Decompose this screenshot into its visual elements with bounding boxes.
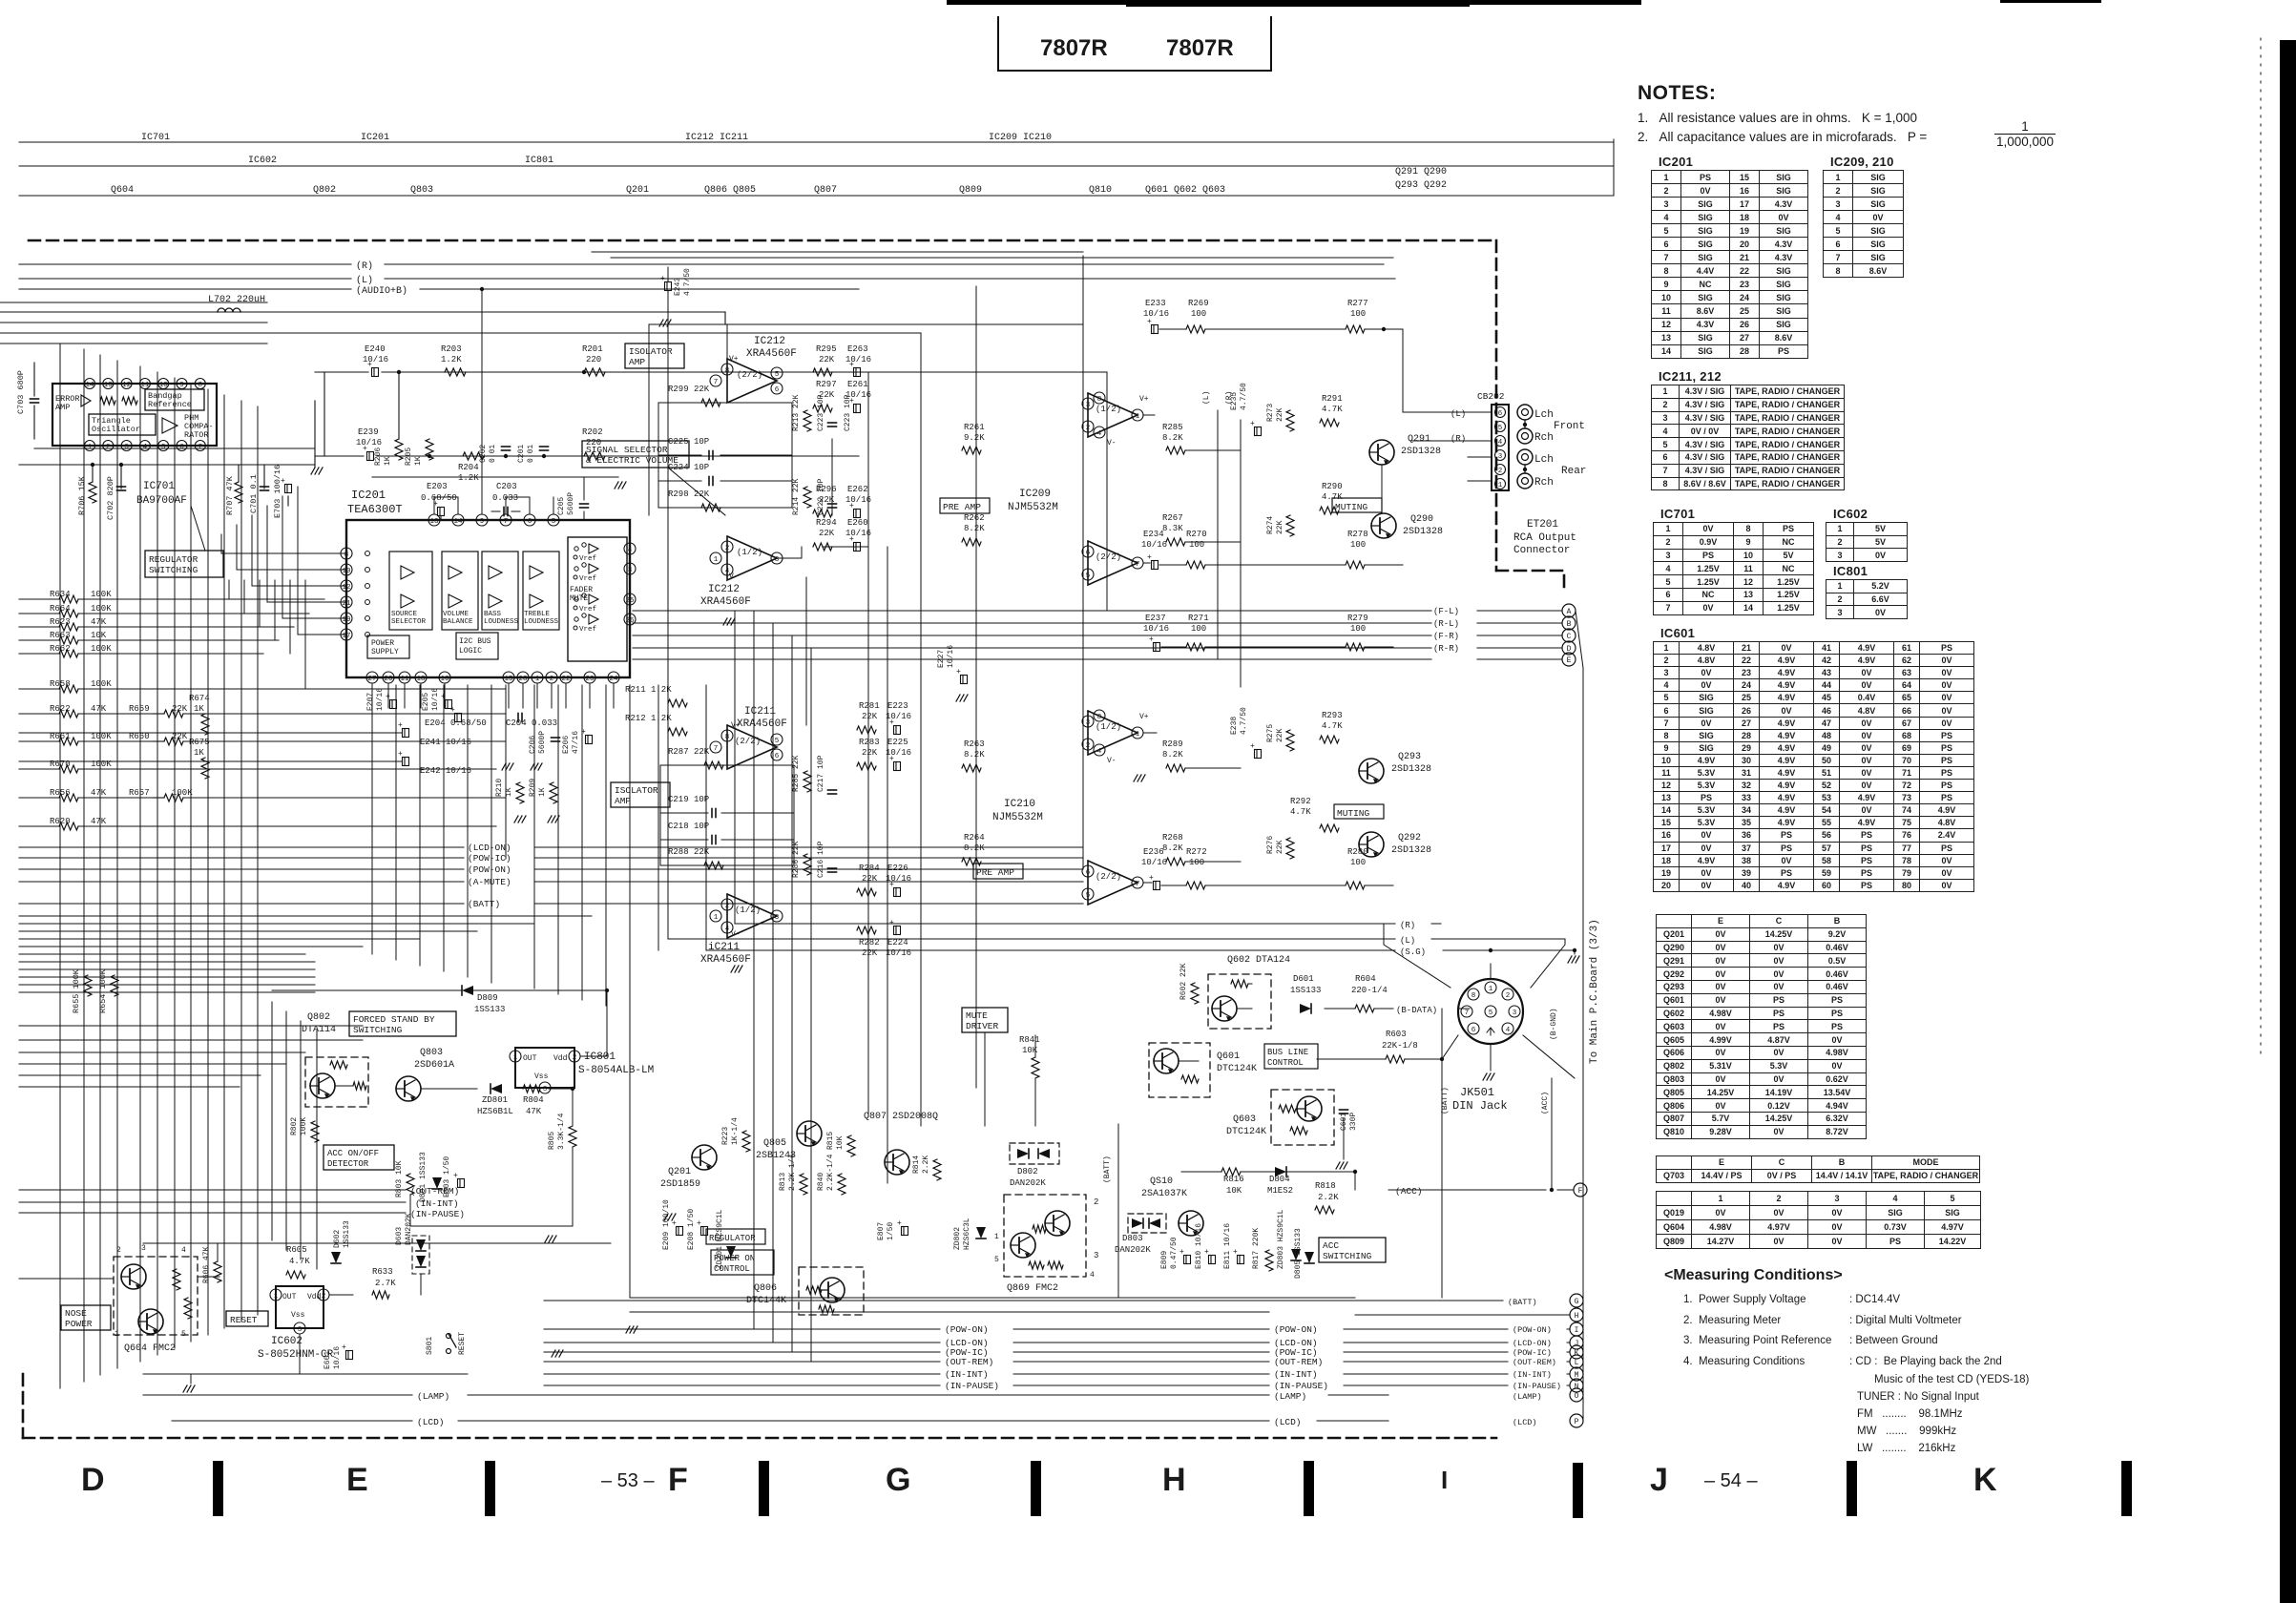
svg-text:R840: R840 <box>817 1173 825 1191</box>
node POWER ON CONTROL box <box>711 1250 774 1275</box>
svg-text:220-1/4: 220-1/4 <box>1351 986 1388 995</box>
svg-text:R278: R278 <box>1347 530 1368 539</box>
svg-text:DETECTOR: DETECTOR <box>327 1159 369 1169</box>
svg-text:3: 3 <box>1513 1010 1517 1017</box>
svg-text:Rear: Rear <box>1561 466 1586 477</box>
svg-text:8: 8 <box>1472 992 1476 1000</box>
svg-text:ISOLATOR: ISOLATOR <box>615 785 658 796</box>
svg-text:S-8052HNM-CR: S-8052HNM-CR <box>258 1349 334 1361</box>
svg-text:8.2K: 8.2K <box>964 843 985 853</box>
wire JK501 spokes <box>1384 924 1451 988</box>
svg-text:R603: R603 <box>1386 1030 1407 1039</box>
svg-text:11: 11 <box>400 676 409 683</box>
svg-text:Q292: Q292 <box>1398 833 1421 843</box>
pin 18 IC201 <box>415 672 427 683</box>
ground <box>183 1385 187 1392</box>
svg-text:IC602: IC602 <box>271 1336 303 1347</box>
svg-text:RCA Output: RCA Output <box>1513 532 1576 544</box>
node SIGNAL SELECTOR & ELECTRIC VOLUME <box>582 441 689 468</box>
svg-text:9.2K: 9.2K <box>964 433 985 443</box>
svg-text:4.7K: 4.7K <box>1290 807 1311 817</box>
svg-text:SIGNAL SELECTOR: SIGNAL SELECTOR <box>586 445 668 455</box>
svg-text:Vref: Vref <box>579 555 597 563</box>
svg-text:8.2K: 8.2K <box>1162 843 1183 853</box>
diode D803 DAN202K <box>1128 1214 1166 1233</box>
svg-text:1: 1 <box>994 1233 999 1241</box>
svg-text:21: 21 <box>342 600 351 608</box>
wire bottom rails <box>630 1297 1355 1299</box>
wire lamp lcd <box>224 1406 1393 1408</box>
wire <box>549 1088 573 1090</box>
pin 15 IC201 <box>503 672 514 683</box>
svg-text:2: 2 <box>1086 742 1091 750</box>
node bus terminal A <box>1562 604 1576 617</box>
svg-text:H: H <box>1162 1462 1186 1498</box>
svg-text:1K: 1K <box>194 748 204 758</box>
svg-text:+: + <box>849 502 854 510</box>
svg-text:(POW-ON): (POW-ON) <box>945 1324 989 1335</box>
svg-text:Q601: Q601 <box>1217 1051 1240 1062</box>
wire <box>1317 1058 1386 1060</box>
svg-text:(POW-ON): (POW-ON) <box>468 864 511 875</box>
svg-text:(AUDIO+B): (AUDIO+B) <box>356 285 407 297</box>
svg-text:8: 8 <box>1097 714 1102 721</box>
pin 12 IC701 <box>121 379 132 389</box>
svg-text:AMP: AMP <box>55 403 70 412</box>
svg-text:C217 10P: C217 10P <box>817 755 825 792</box>
svg-text:(LCD): (LCD) <box>1513 1418 1537 1427</box>
svg-text:I: I <box>1441 1466 1448 1494</box>
svg-text:2SD601A: 2SD601A <box>414 1060 454 1071</box>
top scan black bar <box>947 0 1641 5</box>
svg-text:E207: E207 <box>366 693 375 711</box>
svg-text:1: 1 <box>1136 731 1140 739</box>
node REGULATOR box <box>706 1229 765 1244</box>
svg-text:100: 100 <box>1350 624 1366 634</box>
svg-text:2SD1328: 2SD1328 <box>1401 447 1441 457</box>
svg-text:Q201: Q201 <box>626 185 649 196</box>
svg-text:10/16: 10/16 <box>1143 624 1169 634</box>
svg-text:8.2K: 8.2K <box>1162 433 1183 443</box>
transistor Q601 DTC124K <box>1149 1043 1210 1097</box>
pin 4 IC701 <box>139 441 150 451</box>
svg-text:2: 2 <box>573 1054 577 1062</box>
svg-text:D805 1SS133: D805 1SS133 <box>1294 1228 1303 1279</box>
pin 3 IC701 <box>121 441 132 451</box>
svg-text:1SS133: 1SS133 <box>1290 986 1321 995</box>
svg-text:(2/2): (2/2) <box>1096 552 1121 562</box>
wire <box>315 371 368 373</box>
pin 5 CB202 <box>1495 422 1506 432</box>
svg-text:5: 5 <box>1498 425 1503 432</box>
svg-text:+: + <box>363 445 367 453</box>
svg-text:2: 2 <box>1086 425 1091 432</box>
svg-text:R604: R604 <box>1355 974 1376 984</box>
svg-text:HZS6C3L: HZS6C3L <box>963 1218 971 1250</box>
svg-text:C223 10P: C223 10P <box>817 394 825 431</box>
tables are injected by script below <box>0 0 2296 1</box>
node bus terminal E <box>1562 653 1576 666</box>
svg-text:R294: R294 <box>816 518 837 528</box>
svg-text:RATOR: RATOR <box>184 430 209 440</box>
svg-text:2.2K-1/4: 2.2K-1/4 <box>826 1154 835 1191</box>
pin 24 IC201 <box>608 672 619 683</box>
wire <box>372 476 618 478</box>
op-amp IC801 S-8054ALB-LM <box>515 1048 574 1088</box>
svg-text:V-: V- <box>729 572 739 581</box>
pin 1 CB202 <box>1495 479 1506 489</box>
svg-text:R707 47K: R707 47K <box>225 475 235 515</box>
svg-text:18: 18 <box>416 676 425 683</box>
svg-text:E208 1/50: E208 1/50 <box>687 1209 696 1250</box>
svg-text:IC201: IC201 <box>361 133 389 143</box>
svg-text:E237: E237 <box>1145 614 1166 623</box>
svg-text:1: 1 <box>714 556 719 564</box>
wire <box>272 989 462 991</box>
svg-text:E: E <box>346 1462 368 1498</box>
svg-text:24: 24 <box>609 676 618 683</box>
svg-text:+: + <box>849 535 854 544</box>
node Triangle Oscillator <box>89 414 156 435</box>
transistor Q201 2SD1859 <box>692 1145 717 1170</box>
svg-text:Q803: Q803 <box>420 1048 443 1058</box>
svg-text:Q807 2SD2008Q: Q807 2SD2008Q <box>864 1112 938 1122</box>
svg-text:1: 1 <box>115 1330 119 1339</box>
svg-text:Q604 FMC2: Q604 FMC2 <box>124 1343 176 1354</box>
svg-text:Q802: Q802 <box>313 185 336 196</box>
svg-text:M1ES2: M1ES2 <box>1267 1186 1293 1196</box>
svg-text:DIN Jack: DIN Jack <box>1452 1099 1508 1113</box>
svg-text:22K-1/8: 22K-1/8 <box>1382 1041 1418 1051</box>
svg-text:TEA6300T: TEA6300T <box>347 503 403 516</box>
svg-text:LOUDNESS: LOUDNESS <box>524 618 559 626</box>
node MUTING box <box>1332 498 1382 512</box>
node RCA jacks <box>1517 405 1533 420</box>
svg-text:(L): (L) <box>1451 409 1466 419</box>
wire upper-mid horizontals <box>592 251 1083 253</box>
svg-text:R202: R202 <box>582 427 603 437</box>
pin 28 IC201 <box>517 672 529 683</box>
svg-text:R817 220K: R817 220K <box>1252 1228 1261 1269</box>
svg-text:4: 4 <box>143 444 148 451</box>
svg-text:IC210: IC210 <box>1004 799 1035 810</box>
svg-text:3: 3 <box>298 1326 303 1334</box>
svg-text:(IN-INT): (IN-INT) <box>1513 1370 1552 1380</box>
svg-text:+: + <box>281 477 285 486</box>
svg-text:5: 5 <box>1086 892 1091 900</box>
svg-text:K: K <box>1575 1349 1579 1358</box>
svg-text:Vref: Vref <box>579 626 597 634</box>
svg-text:V-: V- <box>1107 757 1117 765</box>
svg-text:47/16: 47/16 <box>572 731 580 754</box>
svg-text:AMP: AMP <box>615 796 631 806</box>
svg-text:6: 6 <box>775 386 780 394</box>
svg-text:NJM5532M: NJM5532M <box>1008 502 1058 513</box>
svg-text:R209: R209 <box>529 779 537 797</box>
svg-text:100K: 100K <box>91 604 112 614</box>
svg-text:100: 100 <box>1189 858 1204 867</box>
svg-text:Q604: Q604 <box>111 185 134 196</box>
ground <box>502 763 506 770</box>
wire <box>1143 732 1157 734</box>
svg-text:17: 17 <box>342 633 350 640</box>
pin 26 IC201 <box>624 614 636 625</box>
svg-text:R212 1.2K: R212 1.2K <box>625 714 672 723</box>
svg-text:1K-1/4: 1K-1/4 <box>731 1117 740 1145</box>
transistor Q292 <box>1359 832 1384 857</box>
svg-text:ACC: ACC <box>1323 1240 1339 1251</box>
svg-text:(LCD): (LCD) <box>417 1417 445 1427</box>
svg-text:3: 3 <box>1086 719 1091 727</box>
svg-text:C703 680P: C703 680P <box>16 370 26 414</box>
pin 5 IC701 <box>158 441 169 451</box>
svg-text:R297: R297 <box>816 380 837 389</box>
svg-text:R805: R805 <box>548 1132 556 1150</box>
svg-text:Q810: Q810 <box>1089 185 1112 196</box>
svg-text:O: O <box>1575 1392 1579 1401</box>
svg-text:SELECTOR: SELECTOR <box>391 618 427 626</box>
transistor Q603 DTC124K <box>1271 1090 1334 1145</box>
svg-text:DAN202K: DAN202K <box>1010 1178 1046 1188</box>
pin 7 IC201 <box>500 514 511 526</box>
wire left entries <box>0 302 267 303</box>
wire F-L bus <box>633 610 1431 612</box>
svg-text:+: + <box>849 361 854 369</box>
pin 20 IC201 <box>383 672 394 683</box>
svg-text:7: 7 <box>714 745 719 753</box>
svg-text:10/16: 10/16 <box>356 438 382 448</box>
svg-text:3: 3 <box>141 1244 146 1253</box>
svg-text:Rch: Rch <box>1534 432 1554 444</box>
resistor internal <box>100 397 115 405</box>
svg-text:V+: V+ <box>729 355 739 364</box>
pin 16 IC201 <box>439 672 450 683</box>
svg-text:R290: R290 <box>1322 482 1343 491</box>
svg-text:+: + <box>1250 420 1255 428</box>
wire horizontals upper mid <box>649 323 1083 325</box>
node REGULATOR SWITCHING <box>145 551 223 577</box>
svg-text:10/16: 10/16 <box>431 688 440 711</box>
svg-text:5: 5 <box>775 738 780 745</box>
wire <box>19 195 1614 197</box>
wire lattice left extra verticals <box>271 1002 273 1240</box>
svg-text:1: 1 <box>88 444 93 451</box>
svg-text:E234: E234 <box>1143 530 1164 539</box>
pin 9 IC701 <box>177 379 187 389</box>
svg-text:R281: R281 <box>859 701 880 711</box>
wire staircase verticals mid-left <box>371 685 373 954</box>
svg-text:R296: R296 <box>816 485 837 494</box>
svg-text:Q603: Q603 <box>1233 1114 1256 1125</box>
svg-text:R295: R295 <box>816 344 837 354</box>
svg-text:C225 10P: C225 10P <box>668 437 709 447</box>
ground <box>659 320 663 326</box>
svg-text:4: 4 <box>1506 1027 1511 1034</box>
svg-text:D: D <box>81 1462 105 1498</box>
svg-text:10/16: 10/16 <box>1141 858 1167 867</box>
ground <box>311 468 315 474</box>
svg-text:CONTROL: CONTROL <box>1267 1058 1304 1068</box>
svg-text:2: 2 <box>322 1293 326 1301</box>
svg-text:(F-L): (F-L) <box>1433 607 1459 616</box>
svg-text:R606 47K: R606 47K <box>202 1246 211 1283</box>
svg-text:R275: R275 <box>1266 724 1275 742</box>
svg-text:22K: 22K <box>862 874 878 884</box>
svg-text:(LCD): (LCD) <box>1274 1417 1302 1427</box>
svg-text:+: + <box>956 668 961 677</box>
Measuring conditions <box>1664 1267 1843 1284</box>
pin 5 IC201 <box>548 514 559 526</box>
svg-text:12: 12 <box>122 382 131 389</box>
svg-text:R299 22K: R299 22K <box>668 385 710 394</box>
svg-text:4.7/50: 4.7/50 <box>683 268 692 296</box>
svg-text:E262: E262 <box>847 485 868 494</box>
svg-text:L702 220uH: L702 220uH <box>208 295 265 305</box>
svg-text:R286 22K: R286 22K <box>792 841 801 878</box>
svg-text:IC212 IC211: IC212 IC211 <box>685 133 748 143</box>
svg-text:(R): (R) <box>1225 391 1234 405</box>
svg-text:E236: E236 <box>1143 847 1164 857</box>
transistor Q806 DTC144K <box>799 1267 864 1315</box>
wire top right connects <box>1383 264 1385 329</box>
wire <box>19 1051 305 1053</box>
svg-text:I: I <box>1575 1326 1579 1335</box>
op-amp IC210 (1/2) <box>1088 711 1138 755</box>
pin 11 IC201 <box>399 672 410 683</box>
svg-text:R203: R203 <box>441 344 462 354</box>
svg-text:8.2K: 8.2K <box>964 524 985 533</box>
svg-text:ZD801: ZD801 <box>482 1095 508 1105</box>
svg-text:1: 1 <box>535 676 540 683</box>
svg-text:R814: R814 <box>912 1155 921 1174</box>
pin 23 IC201 <box>584 672 595 683</box>
svg-text:7: 7 <box>1136 561 1140 569</box>
svg-text:Q293: Q293 <box>1398 752 1421 762</box>
svg-text:2: 2 <box>725 545 730 552</box>
wire regulator bundle verticals <box>228 580 230 599</box>
svg-text:E233: E233 <box>1145 299 1166 308</box>
svg-text:E807: E807 <box>877 1222 886 1240</box>
svg-text:(POW-IC): (POW-IC) <box>1513 1348 1552 1358</box>
svg-text:4.7/50: 4.7/50 <box>1240 383 1248 410</box>
pin 10 IC701 <box>158 379 169 389</box>
node SOURCE SELECTOR <box>389 552 432 630</box>
svg-text:R271: R271 <box>1188 614 1209 623</box>
svg-text:ZD803 HZS9C1L: ZD803 HZS9C1L <box>1277 1209 1285 1269</box>
svg-text:R268: R268 <box>1162 833 1183 843</box>
svg-text:R272: R272 <box>1186 847 1207 857</box>
svg-text:C218 10P: C218 10P <box>668 822 709 831</box>
svg-text:+: + <box>398 750 403 759</box>
svg-text:2SD1859: 2SD1859 <box>660 1179 700 1190</box>
wire lattice horizontals <box>19 915 592 917</box>
svg-text:+: + <box>367 361 372 369</box>
svg-text:Q602 DTA124: Q602 DTA124 <box>1227 955 1290 966</box>
svg-text:+: + <box>1147 318 1152 326</box>
svg-text:BASS: BASS <box>484 611 502 618</box>
svg-text:2.7K: 2.7K <box>375 1279 396 1288</box>
svg-text:DTC124K: DTC124K <box>1226 1127 1266 1137</box>
svg-text:6: 6 <box>1472 1027 1476 1034</box>
svg-text:+: + <box>889 881 894 889</box>
svg-text:1.2K: 1.2K <box>441 355 462 364</box>
svg-text:(POW-IC): (POW-IC) <box>468 853 511 864</box>
svg-text:47K: 47K <box>91 788 107 798</box>
svg-text:100K: 100K <box>91 590 112 599</box>
wire <box>19 614 633 616</box>
svg-text:C: C <box>1567 633 1572 641</box>
svg-text:D809: D809 <box>477 993 498 1003</box>
svg-text:E238: E238 <box>1230 717 1239 735</box>
node ISOLATOR AMP <box>611 782 670 807</box>
svg-text:22K: 22K <box>1276 840 1284 854</box>
svg-text:R813: R813 <box>779 1173 787 1191</box>
svg-text:Q869 FMC2: Q869 FMC2 <box>1007 1283 1058 1294</box>
svg-text:Q807: Q807 <box>814 185 837 196</box>
svg-text:1: 1 <box>1489 986 1493 993</box>
svg-text:100K: 100K <box>91 679 112 689</box>
pin 3 IC201 <box>624 563 636 574</box>
svg-text:+: + <box>1179 1248 1184 1257</box>
wire <box>777 371 806 373</box>
svg-text:4.7/50: 4.7/50 <box>1240 707 1248 735</box>
svg-text:6: 6 <box>179 444 184 451</box>
svg-text:2.2K: 2.2K <box>1318 1193 1339 1202</box>
svg-text:3: 3 <box>1498 453 1503 461</box>
svg-text:8: 8 <box>725 734 730 741</box>
svg-text:R659: R659 <box>129 704 150 714</box>
svg-text:HZS6B1L: HZS6B1L <box>477 1107 513 1116</box>
svg-text:8.2K: 8.2K <box>964 750 985 760</box>
svg-text:S-8054ALB-LM: S-8054ALB-LM <box>578 1065 654 1076</box>
svg-text:IC209 IC210: IC209 IC210 <box>989 133 1052 143</box>
transistor Q291 <box>1369 440 1394 465</box>
node fader switch <box>574 597 578 601</box>
pin 14 IC201 <box>452 514 464 526</box>
op-amp IC209 (2/2) <box>1088 541 1138 585</box>
svg-text:R263: R263 <box>964 739 985 749</box>
svg-text:1: 1 <box>274 1293 279 1301</box>
svg-text:I2C BUS: I2C BUS <box>459 637 491 646</box>
pin 27 IC201 <box>366 672 378 683</box>
node FADER MUTE block <box>568 537 627 661</box>
op-amp IC209 (1/2) <box>1088 393 1138 437</box>
svg-text:2: 2 <box>116 1246 121 1255</box>
svg-text:C702 820P: C702 820P <box>106 476 115 520</box>
svg-text:SWITCHING: SWITCHING <box>353 1025 403 1035</box>
svg-text:5600P: 5600P <box>538 731 547 754</box>
ground <box>1336 1162 1340 1169</box>
svg-text:R214 22K: R214 22K <box>792 478 801 515</box>
node bus terminal D <box>1562 641 1576 655</box>
svg-text:(1/2): (1/2) <box>1096 405 1121 414</box>
pin 2 IC701 <box>103 441 114 451</box>
pin 17 IC201 <box>341 629 352 640</box>
svg-text:5: 5 <box>181 1330 186 1339</box>
svg-text:IC211: IC211 <box>744 706 776 718</box>
svg-text:13: 13 <box>429 518 439 526</box>
svg-text:F: F <box>668 1462 688 1498</box>
svg-text:R289: R289 <box>1162 739 1183 749</box>
op-amp IC602 S-8052HNM-CR <box>276 1286 324 1328</box>
svg-text:R274: R274 <box>1266 516 1275 534</box>
svg-text:100: 100 <box>1350 540 1366 550</box>
svg-text:R276: R276 <box>1266 836 1275 854</box>
svg-text:5: 5 <box>1489 1010 1493 1017</box>
ground <box>548 816 552 822</box>
svg-text:100: 100 <box>1191 624 1206 634</box>
svg-text:ISOLATOR: ISOLATOR <box>629 346 673 357</box>
